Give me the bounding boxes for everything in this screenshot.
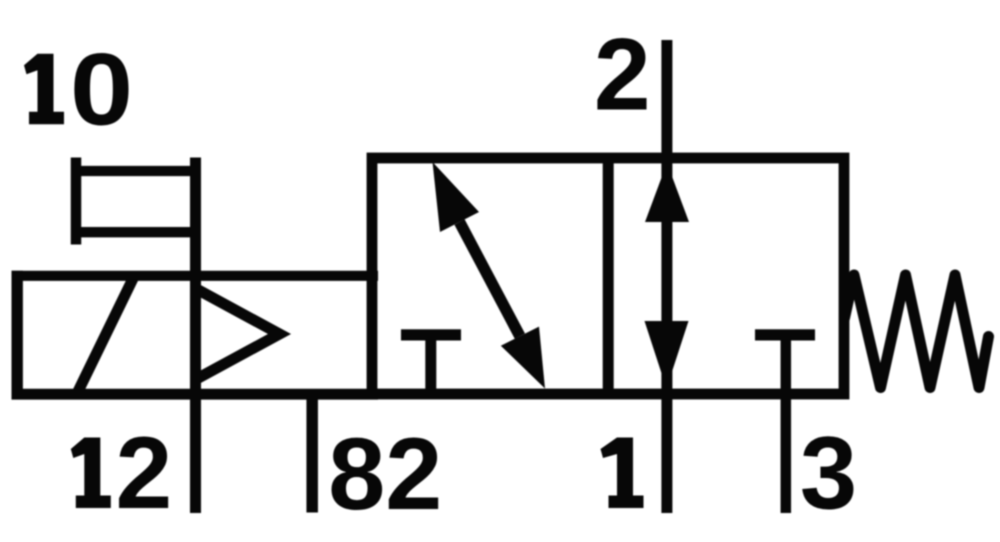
svg-text:82: 82 — [328, 416, 442, 531]
svg-text:3: 3 — [800, 415, 857, 530]
down arrowhead — [645, 321, 689, 389]
port 10 bracket middle bar — [71, 227, 201, 237]
valve body outline — [372, 158, 844, 394]
solenoid diagonal — [77, 277, 134, 394]
pilot / port 12 vertical line — [190, 158, 201, 514]
digit 1 of label 1 — [601, 438, 644, 509]
port 10 bracket left bar — [71, 158, 82, 245]
svg-text:2: 2 — [116, 416, 173, 530]
left T stem — [425, 334, 436, 394]
spring — [845, 275, 989, 388]
diagonal arrow shaft — [460, 222, 520, 336]
right T stem / port 3 line — [781, 334, 792, 513]
port 82 line — [306, 390, 318, 513]
svg-text:2: 2 — [594, 18, 651, 132]
divider between valve positions — [603, 155, 614, 397]
top edge solenoid box — [12, 271, 379, 281]
digit 1 of label 12 — [71, 438, 111, 509]
diagonal arrowhead top — [433, 162, 480, 232]
up arrowhead — [645, 163, 689, 222]
port 10 bracket top bar — [71, 166, 201, 176]
pilot triangle — [197, 289, 280, 379]
bottom line of solenoid box — [12, 389, 379, 400]
svg-text:0: 0 — [70, 33, 133, 147]
port 2 / port 1 line — [661, 40, 672, 513]
diagonal arrowhead bottom — [501, 327, 545, 389]
left T bar — [401, 329, 461, 340]
digit 1 of label 10 — [24, 54, 64, 125]
right T bar — [755, 329, 815, 340]
left edge solenoid box — [12, 271, 23, 400]
